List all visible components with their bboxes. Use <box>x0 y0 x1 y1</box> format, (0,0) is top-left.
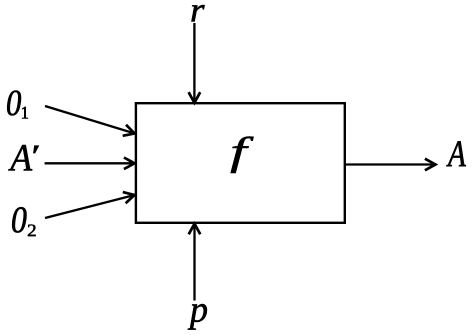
arrowhead 0_2 into left edge <box>123 189 136 203</box>
label A output <box>446 141 466 166</box>
block f (rectangle) <box>136 103 345 223</box>
arrowhead 0_1 into left edge <box>123 125 137 139</box>
arrowhead p into bottom edge <box>189 224 201 235</box>
label 0_2 zero <box>12 207 26 232</box>
label f <box>231 137 254 174</box>
wire 0_1 (upper-left diagonal input) <box>45 106 134 133</box>
subscript 2 <box>28 225 36 237</box>
arrowhead A' into left edge <box>124 158 135 170</box>
wire r (top input line) <box>193 23 195 101</box>
wire p (bottom input line) <box>193 226 195 301</box>
label 0_1 zero <box>7 91 21 116</box>
label r <box>192 5 205 21</box>
wire A (right output line) <box>345 163 433 165</box>
label A' letter A <box>8 145 32 170</box>
arrowhead r into top edge <box>189 92 201 103</box>
wire 0_2 (lower-left diagonal input) <box>45 195 134 218</box>
arrowhead A output <box>425 159 436 171</box>
wire A' (middle-left horizontal input) <box>45 162 134 164</box>
label p <box>188 304 207 330</box>
prime mark <box>33 146 38 153</box>
subscript 1 <box>22 107 28 119</box>
